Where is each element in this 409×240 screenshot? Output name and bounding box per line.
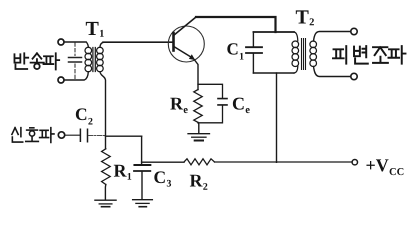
label C3	[154, 171, 171, 186]
input terminal (signal)	[58, 132, 64, 138]
input terminal (carrier top)	[58, 39, 64, 45]
label C1	[227, 43, 243, 59]
transformer T1	[85, 47, 103, 72]
capacitor C3	[135, 164, 151, 166]
wire (C2 to junction, faint)	[89, 135, 105, 137]
파	[40, 130, 49, 137]
wire (tank to Vcc rail)	[276, 73, 278, 162]
label R1	[114, 165, 131, 180]
wire (T1 secondary bottom down through junction)	[100, 72, 106, 149]
collector stroke	[174, 17, 196, 35]
wire (carrier top to T1)	[64, 42, 88, 47]
wire (Re bottom to ground)	[197, 122, 200, 133]
label carrier input 반송파	[14, 53, 59, 69]
변	[354, 47, 360, 57]
wire (R2 to +Vcc terminal)	[215, 161, 352, 163]
신	[12, 128, 18, 135]
label +Vcc	[366, 159, 403, 175]
tuning capacitor (dashed branch)	[69, 43, 82, 79]
transistor Q1	[168, 17, 204, 62]
피	[333, 49, 344, 58]
파	[389, 49, 400, 57]
resistor R1	[102, 149, 111, 185]
input terminal (carrier bottom)	[58, 77, 64, 83]
label output 피변조파	[333, 46, 405, 63]
label R2	[190, 175, 208, 190]
tank top rail	[253, 31, 294, 33]
output terminal (top)	[351, 28, 357, 34]
wire (R1 to ground)	[104, 185, 106, 200]
resistor Re	[194, 90, 202, 123]
ground (R1)	[95, 200, 116, 207]
label C2	[76, 108, 93, 124]
resistor R2	[184, 159, 215, 165]
조	[373, 47, 387, 55]
label Re	[170, 98, 187, 113]
wire (T2 secondary bottom to terminal)	[314, 67, 351, 77]
T1 core	[93, 48, 95, 72]
T2 primary winding	[292, 41, 299, 48]
terminal +Vcc	[352, 160, 357, 165]
wire (junction to C3 node)	[106, 135, 142, 137]
T2 secondary winding	[310, 41, 317, 48]
tank bottom rail	[253, 72, 294, 74]
output terminal (bottom)	[351, 73, 357, 79]
capacitor C1	[252, 32, 254, 47]
ground (emitter)	[188, 134, 210, 141]
transformer T2	[292, 32, 317, 73]
label signal input 신호파	[12, 128, 54, 143]
T2 primary lead top	[294, 32, 298, 41]
T1 primary winding	[85, 47, 92, 54]
ground (C3)	[133, 200, 153, 207]
반	[14, 54, 20, 62]
파	[44, 56, 54, 64]
wire (T1 secondary top lead)	[100, 42, 104, 47]
wire (base wire T1 to Q1)	[103, 41, 173, 43]
호	[30, 127, 34, 129]
label T2	[296, 10, 314, 25]
emitter stroke with arrow	[174, 47, 192, 58]
label Ce	[233, 98, 250, 114]
송	[33, 53, 42, 58]
wire (collector to top rail)	[196, 17, 276, 32]
wire (signal terminal to C2)	[65, 134, 80, 136]
wire (emitter down)	[194, 60, 198, 90]
label T1	[86, 22, 104, 37]
T2 core	[302, 39, 306, 70]
wire (carrier bottom to T1)	[64, 72, 88, 80]
capacitor C2	[80, 129, 87, 142]
capacitor Ce	[198, 84, 223, 98]
T2 primary lead bottom	[294, 67, 298, 74]
wire (T2 secondary top to terminal)	[314, 32, 351, 42]
wire (C3 node down)	[141, 136, 143, 164]
T1 secondary winding	[97, 47, 104, 54]
wire (C3 node to R2)	[142, 161, 184, 163]
